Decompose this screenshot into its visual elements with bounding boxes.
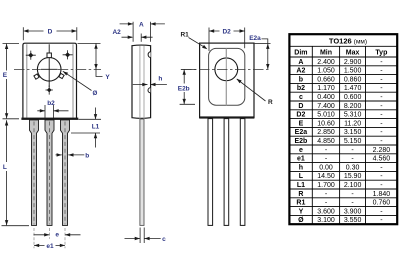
svg-text:D: D [48,29,53,36]
svg-text:10.60: 10.60 [317,120,335,127]
svg-text:Max: Max [346,49,360,56]
svg-text:A: A [298,59,303,66]
svg-text:E: E [3,72,8,79]
svg-text:0.600: 0.600 [344,94,362,101]
svg-text:0.30: 0.30 [346,164,360,171]
svg-text:TO126 (мм): TO126 (мм) [329,37,367,46]
svg-text:R1: R1 [180,32,189,39]
svg-text:Y: Y [299,208,304,215]
dimension L [2,225,30,227]
dimension b [56,154,85,156]
svg-text:E2a: E2a [249,35,261,42]
datum mark top-left [26,51,36,60]
front view mounting hole circle [37,58,61,82]
svg-text:E2b: E2b [294,138,307,145]
datum mark below hole [46,85,53,94]
svg-text:E2a: E2a [295,129,308,136]
back view lead 1 [208,119,213,226]
svg-text:e1: e1 [46,243,54,250]
svg-text:1.500: 1.500 [344,68,362,75]
svg-text:L: L [3,164,7,171]
back view lead 2 [224,119,229,226]
front view bottom flange bar [21,118,78,120]
svg-text:Typ: Typ [375,49,387,56]
table outer border [289,34,397,224]
svg-text:5.010: 5.010 [317,112,335,119]
svg-text:A: A [139,21,144,28]
svg-text:D2: D2 [222,28,231,35]
svg-text:4.560: 4.560 [373,156,391,163]
svg-text:D2: D2 [296,112,305,119]
svg-text:b: b [85,153,89,160]
svg-text:5.310: 5.310 [344,112,362,119]
svg-text:0.400: 0.400 [317,94,335,101]
dimension D2 [209,28,245,52]
svg-text:Dim: Dim [294,49,307,56]
svg-text:Ø: Ø [92,90,97,97]
table grid lines [289,46,397,224]
svg-text:7.400: 7.400 [317,103,335,110]
back view horizontal centerline [181,68,271,70]
svg-text:D: D [298,103,303,110]
dimension h [133,84,167,86]
svg-text:3.600: 3.600 [317,208,335,215]
svg-text:3.150: 3.150 [344,129,362,136]
front view hole left tab [34,74,39,79]
svg-text:E: E [299,120,304,127]
svg-text:2.400: 2.400 [317,59,335,66]
leader dimension Ø (hole diameter) [63,71,92,90]
svg-text:e: e [299,147,303,154]
dimension E2a [255,42,271,44]
front view inner edge lines [27,44,73,117]
dimension e1 [34,244,65,246]
svg-text:E2b: E2b [178,86,190,93]
dimension D [23,27,77,40]
svg-text:3.100: 3.100 [317,217,335,224]
back view lead 3 [240,119,245,226]
dimension A [133,22,150,42]
svg-text:A2: A2 [112,29,121,36]
back view body outline [200,43,254,118]
svg-text:2.100: 2.100 [344,182,362,189]
svg-text:h: h [158,75,162,82]
leader dimension R [237,79,266,101]
svg-text:2.900: 2.900 [344,59,362,66]
side view hidden lead lines [140,46,144,119]
svg-text:5.150: 5.150 [344,138,362,145]
svg-text:2.850: 2.850 [317,129,335,136]
svg-text:1.700: 1.700 [317,182,335,189]
svg-text:0.660: 0.660 [317,76,335,83]
front view lead 2 [45,120,54,225]
back view inner rounded pad [209,48,245,105]
svg-text:Ø: Ø [298,217,304,224]
side view lead [140,119,144,225]
svg-text:Y: Y [105,74,110,81]
svg-text:A2: A2 [296,68,305,75]
front view hole crosshair [41,44,58,87]
front view lead 1 [30,120,39,225]
dimension E2b [180,69,196,104]
back view bottom bar [199,116,254,118]
front view hole top tab [47,53,51,58]
svg-text:0.760: 0.760 [373,200,391,207]
svg-text:b2: b2 [297,85,305,92]
svg-text:e: e [55,232,59,239]
dimension b2 [45,105,54,118]
svg-text:L1: L1 [92,124,100,131]
dimension E [3,43,20,118]
dimension L1 [71,119,101,133]
dimension Y [78,42,101,44]
svg-text:e1: e1 [297,156,305,163]
side view bump upper [148,52,151,58]
svg-text:3.900: 3.900 [344,208,362,215]
svg-text:Min: Min [320,49,332,56]
svg-text:0.00: 0.00 [319,164,333,171]
svg-text:b2: b2 [47,100,55,107]
back view hole circle [215,58,238,81]
front view centerline [14,68,101,70]
svg-text:c: c [299,94,303,101]
svg-text:4.850: 4.850 [317,138,335,145]
back view vertical centerline upper [225,48,227,105]
front view lead 3 [61,120,70,225]
svg-text:1.840: 1.840 [373,191,391,198]
front view hole right tab [59,73,64,78]
svg-text:L1: L1 [297,182,305,189]
svg-text:15.90: 15.90 [344,173,362,180]
dimension c [140,228,144,244]
svg-text:c: c [162,236,166,243]
dimension e [34,228,65,248]
svg-text:R: R [268,99,273,106]
front view body outline [23,43,77,118]
side view body outline [132,45,151,118]
svg-text:3.550: 3.550 [344,217,362,224]
svg-text:L: L [299,173,304,180]
dimension A2 [140,34,142,42]
svg-text:2.280: 2.280 [373,147,391,154]
svg-text:8.200: 8.200 [344,103,362,110]
svg-text:0.860: 0.860 [344,76,362,83]
svg-text:1.050: 1.050 [317,68,335,75]
svg-text:14.50: 14.50 [317,173,335,180]
svg-text:b: b [299,76,303,83]
svg-text:R: R [298,191,303,198]
svg-text:h: h [299,164,303,171]
svg-text:11.20: 11.20 [344,120,361,127]
leader dimension R1 [189,38,206,48]
svg-text:1.470: 1.470 [344,85,362,92]
back view vertical centerline [225,48,227,105]
side view bump lower [148,88,150,93]
svg-text:1.170: 1.170 [317,85,335,92]
datum mark top-right [63,50,73,59]
svg-text:R1: R1 [296,200,305,207]
